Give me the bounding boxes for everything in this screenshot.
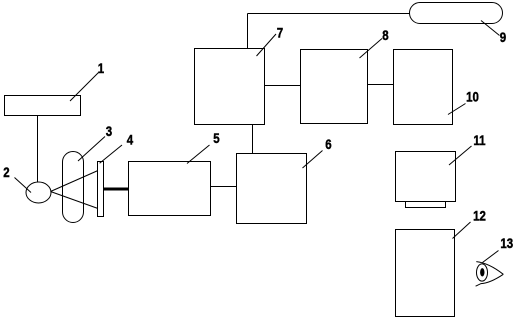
- label 5: [187, 130, 220, 164]
- label 12: [453, 207, 486, 238]
- wire top horizontal to capsule9: [248, 13, 410, 15]
- svg-text:9: 9: [500, 29, 506, 45]
- box 11 (monitor): [396, 152, 456, 202]
- box 10: [394, 50, 453, 125]
- plate 4 (target slide): [98, 162, 104, 217]
- svg-text:7: 7: [277, 24, 283, 40]
- box 7: [195, 49, 265, 125]
- light ray lower: [51, 192, 99, 209]
- capsule 9 (battery): [410, 3, 503, 24]
- svg-text:10: 10: [466, 88, 479, 104]
- svg-text:4: 4: [127, 131, 134, 147]
- svg-text:2: 2: [3, 164, 9, 180]
- label 3: [78, 123, 112, 161]
- svg-text:12: 12: [473, 207, 486, 223]
- wire box1 to lamp 2: [37, 116, 39, 183]
- box 1 (lamp power supply): [5, 96, 81, 116]
- svg-text:8: 8: [382, 27, 388, 43]
- svg-text:13: 13: [500, 235, 513, 251]
- label 9: [481, 21, 506, 46]
- label 8: [360, 27, 389, 58]
- label 2: [3, 164, 31, 193]
- lens 3 (condenser capsule): [63, 152, 84, 223]
- wire box5 to box6: [211, 186, 237, 188]
- box 6: [237, 154, 307, 224]
- monitor base 11: [406, 202, 446, 208]
- box 8: [301, 50, 368, 124]
- eye 13 lower lid: [476, 274, 504, 286]
- eye 13 pupil: [480, 268, 484, 276]
- label 10: [448, 88, 479, 114]
- wire box6 to box7: [252, 125, 254, 154]
- svg-text:5: 5: [213, 130, 219, 146]
- svg-text:3: 3: [106, 123, 112, 139]
- eye 13 upper lid: [476, 262, 503, 275]
- light ray upper: [51, 171, 99, 192]
- svg-text:11: 11: [473, 132, 485, 148]
- label 6: [303, 136, 332, 168]
- svg-text:1: 1: [98, 60, 104, 76]
- thick wire plate4 to box5: [104, 188, 130, 191]
- box 5: [129, 162, 211, 216]
- label 11: [449, 132, 486, 165]
- wire box8 to box10: [368, 84, 394, 86]
- eye 13 iris: [477, 264, 488, 281]
- wire box7 to box8: [265, 85, 301, 87]
- label 7: [257, 24, 284, 56]
- label 13: [483, 235, 514, 263]
- wire box7 up: [247, 14, 249, 49]
- label 1: [70, 60, 104, 101]
- label 4: [100, 131, 134, 163]
- lamp 2 (light source circle): [26, 182, 51, 203]
- box 12: [396, 230, 455, 317]
- svg-text:6: 6: [325, 136, 331, 152]
